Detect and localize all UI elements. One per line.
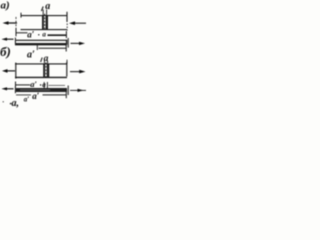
plate left edge fig b <box>15 63 17 79</box>
edge view left tick fig a <box>14 38 16 45</box>
plate left corner tick fig a <box>20 13 22 18</box>
load arrow left, edge view fig a <box>5 38 14 40</box>
dimension tick (comma) left of top label a fig b <box>41 58 43 63</box>
edge view right tick fig b <box>67 86 69 96</box>
dimension tick below bar right fig b <box>65 92 67 98</box>
dimension line below bar left segment fig b <box>16 94 31 96</box>
weld seam right thick line fig a <box>46 16 48 30</box>
svg-text:а: а <box>42 31 46 39</box>
load arrow right, plan view fig a <box>74 22 86 24</box>
plate top edge, plan view fig b <box>15 63 67 65</box>
dimension line a' left segment fig a <box>16 32 28 34</box>
svg-text:а): а) <box>1 0 10 12</box>
weld seam centerline fig b <box>45 62 47 78</box>
dimension tick below bar right fig a <box>65 45 67 52</box>
dimension line a' left segment fig b <box>16 84 31 86</box>
dimension tick x16 fig a mid row <box>15 28 17 36</box>
load arrow right, edge view fig b <box>70 89 86 91</box>
dimension tick x15.5 fig b mid row <box>15 82 17 88</box>
separator dot mid row fig a <box>38 34 39 35</box>
weld seam right thick line fig b <box>47 64 49 78</box>
dimension line right segment (thick) fig a <box>48 34 67 36</box>
edge view right tick fig a <box>67 38 69 48</box>
right corner tick fig b <box>66 60 68 64</box>
svg-text:а′: а′ <box>32 91 40 101</box>
svg-text:б): б) <box>0 44 11 59</box>
weld seam left thick line fig a <box>42 16 44 30</box>
extension ticks above seam fig b <box>43 61 45 66</box>
plate top edge, plan view fig a <box>21 15 68 17</box>
seam ticks mid row fig b <box>43 82 45 88</box>
load arrow right, edge view fig a <box>71 42 80 44</box>
dimension tick (comma) left of top label a <box>41 7 43 12</box>
edge view bar bottom line fig a <box>15 43 67 45</box>
tick below bar fig a <box>36 45 38 50</box>
load arrow left, plan view fig b <box>6 70 15 72</box>
svg-text:а: а <box>45 1 50 12</box>
dimension line right faint segment fig b <box>49 84 66 86</box>
extension line right of seam a (fig a) <box>46 10 48 16</box>
stray dot bottom left <box>3 101 4 102</box>
load arrow right, plan view fig b <box>70 71 80 73</box>
extension line left of seam a (fig a) <box>42 10 44 16</box>
plate right edge hidden part (dash) fig a <box>66 24 68 31</box>
dimension line below bar fig a <box>39 47 67 49</box>
weld seam centerline fig a <box>44 14 46 31</box>
extension line (dash-dot) at x16 fig a <box>15 17 17 27</box>
svg-text:а′: а′ <box>27 29 35 39</box>
dimension line below bar right segment fig b <box>43 94 67 96</box>
edge view bar top line fig a <box>15 39 67 41</box>
edge view solid bar fig b <box>16 88 67 92</box>
plate right edge fig a <box>66 12 68 22</box>
plate right edge fig b <box>66 62 68 77</box>
edge view left tick fig b <box>14 86 16 93</box>
svg-text:а′: а′ <box>27 50 35 61</box>
plate bottom edge, plan view fig b <box>15 76 67 78</box>
svg-text:а′: а′ <box>24 96 30 104</box>
weld seam left thick line fig b <box>43 64 45 78</box>
separator dot mid row fig b <box>40 84 41 85</box>
plate bottom edge, plan view fig a <box>21 29 68 31</box>
svg-text:а′: а′ <box>30 79 37 89</box>
edge view bar right end fig a <box>66 40 68 45</box>
svg-text:а,: а, <box>12 98 20 109</box>
dimension tick right fig a mid row <box>65 31 67 38</box>
load arrow left, edge view fig b <box>5 88 14 90</box>
load arrow left, plan view fig a <box>7 22 18 24</box>
